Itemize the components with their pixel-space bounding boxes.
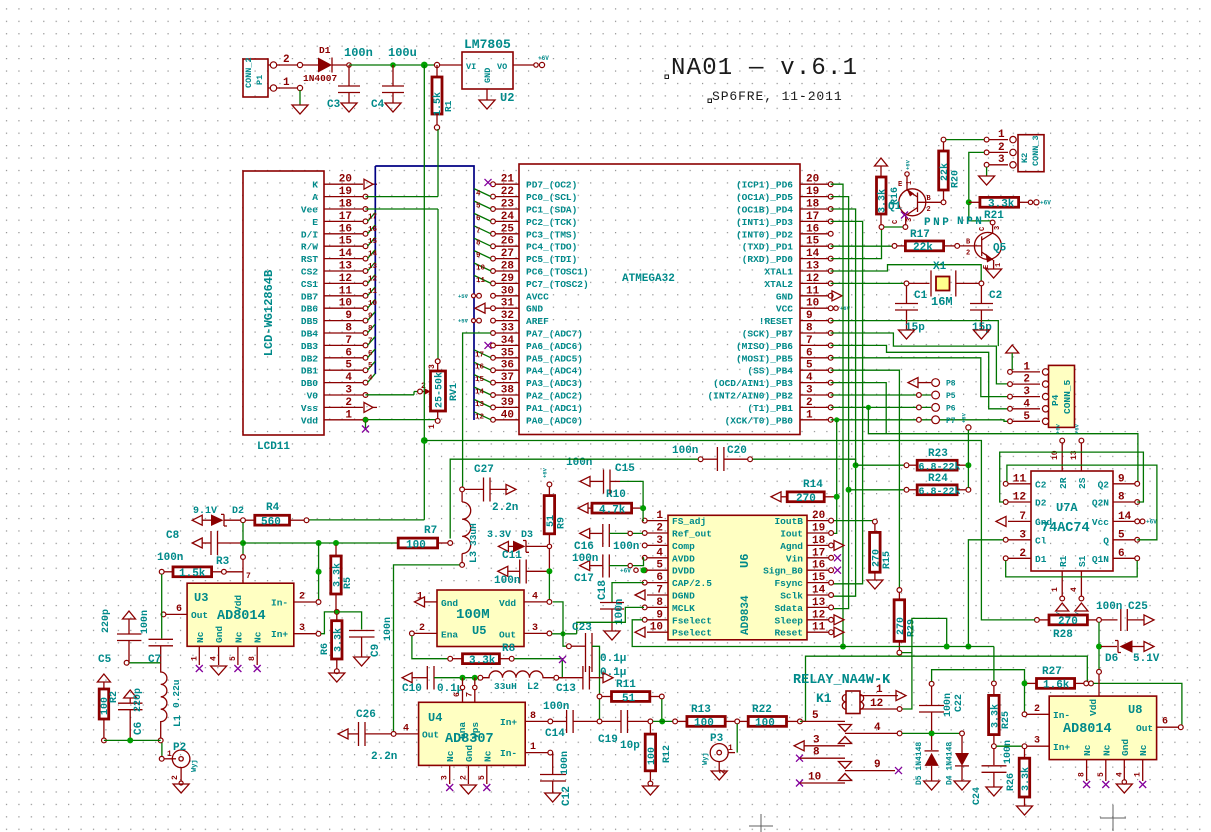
svg-text:R24: R24: [928, 473, 948, 485]
ATMEGA pin 21 PD7_(OC2): [494, 183, 519, 185]
svg-text:2: 2: [419, 623, 425, 634]
svg-text:Out: Out: [191, 610, 208, 621]
junction +9V rail: [421, 62, 428, 69]
svg-text:AREF: AREF: [526, 316, 549, 327]
svg-text:5: 5: [345, 360, 352, 372]
crystal X1 16M: [904, 281, 909, 286]
svg-text:11: 11: [339, 285, 353, 297]
bus entry LCD pin 8: [368, 324, 376, 333]
svg-text:5: 5: [1097, 772, 1106, 777]
svg-text:D4 1N4148: D4 1N4148: [946, 742, 955, 785]
bus entry ATMEGA pin 22: [474, 189, 491, 197]
wire MCLK to U5 Out: [577, 607, 644, 633]
LCD pin 18 Vee: [324, 208, 363, 210]
resistor R13 100: [678, 720, 687, 722]
resistor R21 3.3k: [966, 199, 972, 205]
U8 bottom pins: [1086, 760, 1088, 781]
svg-text:In-: In-: [500, 748, 517, 759]
svg-text:8: 8: [476, 240, 481, 248]
no-connect X pin 34: [485, 342, 492, 349]
zener D6 5.1V: [1098, 622, 1100, 670]
svg-text:0.22u: 0.22u: [171, 679, 182, 708]
svg-text:100n: 100n: [140, 610, 151, 634]
wire Fselect to R25 rail: [632, 620, 994, 647]
wire PA7 pin33 to L3 top: [463, 333, 491, 488]
svg-text:4: 4: [806, 372, 813, 384]
regulator U2 LM7805: [462, 52, 513, 89]
svg-text:8: 8: [1078, 772, 1087, 777]
svg-text:12: 12: [339, 273, 352, 285]
U4 In- pin 1: [525, 752, 548, 754]
svg-text:Vdd: Vdd: [1088, 699, 1099, 716]
test point P5: [932, 391, 940, 399]
resistor R24 6.8-22k: [846, 487, 852, 493]
svg-text:10: 10: [806, 298, 819, 310]
BNC P3: [710, 744, 728, 762]
svg-text:11: 11: [812, 622, 826, 634]
svg-text:3.3V: 3.3V: [487, 530, 511, 541]
svg-text:6: 6: [176, 604, 182, 615]
svg-text:1N4007: 1N4007: [303, 73, 338, 84]
capacitor C18 100n: [612, 583, 644, 603]
ATMEGA pin 7 (MISO)_PB6: [800, 344, 829, 346]
supply arrow R2: [97, 674, 110, 682]
U6 pin 5 DVDD: [647, 569, 668, 571]
svg-text:14: 14: [475, 389, 485, 397]
svg-text:Fselect: Fselect: [672, 615, 712, 626]
svg-text:K: K: [312, 180, 318, 191]
ATMEGA pin 39 PA1_(ADC1): [494, 406, 519, 408]
wire Q2N to D2 loop: [1000, 452, 1144, 502]
svg-text:(RXD)_PD0: (RXD)_PD0: [742, 254, 794, 265]
svg-text:Wyj: Wyj: [702, 752, 710, 765]
U5 pin2 Ena: [410, 631, 415, 636]
svg-text:R5: R5: [343, 577, 354, 589]
svg-text:2: 2: [656, 523, 663, 535]
ground P1: [292, 105, 308, 114]
svg-text:1: 1: [998, 129, 1005, 141]
no-connect X below LCD Vdd: [362, 426, 369, 433]
svg-text:+6V: +6V: [1055, 423, 1062, 434]
svg-text:PA5_(ADC5): PA5_(ADC5): [526, 353, 583, 364]
capacitor C24 100n: [993, 749, 995, 765]
bus entry LCD pin 16: [368, 225, 376, 234]
RV1 wiper pin 2: [418, 389, 423, 394]
svg-text:3.3k: 3.3k: [332, 563, 344, 587]
svg-text:22: 22: [501, 186, 514, 198]
svg-text:220p: 220p: [133, 688, 144, 712]
svg-text:!RESET: !RESET: [759, 316, 794, 327]
U4 bottom pins: [449, 765, 451, 784]
bus entry LCD pin 7: [368, 336, 376, 345]
wire PD5 pin19 to U6 Sclk: [831, 197, 849, 609]
wire P1.1 to ground: [279, 87, 300, 89]
svg-text:PC7_(TOSC2): PC7_(TOSC2): [526, 279, 589, 290]
svg-text:P4: P4: [1050, 394, 1061, 406]
svg-text:7: 7: [806, 335, 813, 347]
U3 bottom pins: [198, 646, 200, 665]
svg-text:AD8014: AD8014: [217, 609, 266, 624]
svg-text:3: 3: [656, 535, 663, 547]
bus entry ATMEGA pin 38: [474, 387, 491, 395]
U6 pin 1 FS_adj: [647, 520, 668, 522]
svg-text:PA6_(ADC6): PA6_(ADC6): [526, 341, 583, 352]
wire PB1 pin2 to P6: [831, 406, 931, 408]
svg-text:2: 2: [345, 397, 352, 409]
svg-text:100u: 100u: [388, 46, 417, 60]
wire R10 node to FS_adj: [642, 510, 645, 521]
svg-text:In+: In+: [500, 717, 517, 728]
P4 pin 3: [1012, 396, 1040, 398]
bus entry LCD pin 9: [368, 312, 376, 321]
svg-text:+6V: +6V: [1040, 200, 1051, 207]
bus entry ATMEGA pin 24: [474, 213, 491, 221]
bus entry LCD pin 6: [368, 349, 376, 358]
wire R2/C6/L1 node: [104, 739, 161, 741]
svg-text:1: 1: [345, 409, 352, 421]
svg-text:100n: 100n: [943, 693, 954, 717]
wire R16 to Q1 collector: [884, 226, 903, 228]
+9V rail from D1 node down: [423, 65, 425, 520]
K1 contact pin 10: [796, 780, 803, 787]
svg-text:DB0: DB0: [301, 378, 318, 389]
svg-text:R2: R2: [109, 691, 120, 703]
U7A pin 5 Q: [1113, 539, 1135, 541]
wire R27 node to U8 In-: [1024, 686, 1026, 712]
svg-text:XTAL1: XTAL1: [764, 267, 793, 278]
svg-text:5: 5: [229, 656, 238, 661]
svg-text:DB2: DB2: [301, 353, 318, 364]
wire LCD Vdd to RV1 pin1: [366, 419, 438, 421]
svg-text:R8: R8: [502, 643, 516, 655]
diode D5 1N4148: [931, 736, 933, 750]
svg-text:A: A: [312, 192, 318, 203]
capacitor C9 100n: [339, 612, 361, 630]
svg-text:C5: C5: [98, 654, 112, 666]
svg-text:C27: C27: [474, 464, 494, 476]
svg-text:(INT0)_PD2: (INT0)_PD2: [736, 229, 793, 240]
svg-text:10: 10: [808, 772, 821, 784]
LCD pin 11 DB7: [324, 295, 363, 297]
U2 GND pin: [486, 89, 488, 100]
ATMEGA pin 11 GND: [800, 295, 829, 297]
U6 pin 15 Fsync: [807, 582, 829, 584]
svg-text:16: 16: [368, 226, 378, 234]
svg-text:14: 14: [806, 248, 820, 260]
svg-text:U3: U3: [194, 591, 208, 605]
svg-text:Iout: Iout: [780, 529, 803, 540]
U7A pin 13 2S: [1080, 443, 1082, 471]
svg-text:1: 1: [1051, 587, 1060, 592]
LCD pin 14 RST: [324, 258, 363, 260]
bus entry ATMEGA pin 25: [474, 226, 491, 234]
U7A pin 1 R1: [1061, 571, 1063, 596]
svg-text:16: 16: [475, 364, 485, 372]
transistor Q5 NPN: [990, 220, 995, 225]
svg-text:C11: C11: [502, 550, 522, 562]
ATMEGA pin 22 PC0_(SCL): [494, 196, 519, 198]
resistor R2 100: [99, 689, 109, 719]
svg-text:270: 270: [1058, 616, 1078, 628]
svg-text:CONN_5: CONN_5: [1062, 379, 1073, 414]
svg-text:100n: 100n: [560, 751, 571, 775]
svg-text:100: 100: [694, 718, 714, 730]
resistor R22 100: [740, 720, 749, 722]
svg-text:C17: C17: [574, 573, 594, 585]
capacitor C11 100n: [498, 566, 508, 576]
ATMEGA pin 32 AREF: [494, 320, 519, 322]
svg-text:R15: R15: [882, 551, 893, 569]
svg-text:13: 13: [475, 401, 485, 409]
wire R14 column to IoutB: [831, 420, 837, 534]
LCD pin 7 DB3: [324, 344, 363, 346]
capacitor C13 0.1u: [559, 677, 583, 679]
svg-text:220p: 220p: [101, 609, 112, 633]
inductor L2 33uH: [478, 675, 483, 680]
svg-text:U2: U2: [500, 91, 514, 105]
svg-text:R6: R6: [320, 643, 331, 655]
capacitor C6 220p: [118, 702, 143, 704]
svg-text:RST: RST: [301, 254, 318, 265]
LCD pin 9 DB5: [324, 320, 363, 322]
svg-text:IoutB: IoutB: [774, 516, 803, 527]
svg-text:6: 6: [656, 572, 663, 584]
resistor R23 6.8-22k: [853, 462, 859, 468]
ground Q5 emitter: [986, 269, 1002, 278]
svg-text:0.1µ: 0.1µ: [600, 653, 626, 665]
svg-text:2: 2: [806, 397, 813, 409]
wire Q to C2 loop: [1007, 465, 1157, 540]
ATMEGA pin 27 PC5_(TDI): [494, 258, 519, 260]
svg-text:8: 8: [368, 325, 373, 333]
+9V rail to R4: [308, 519, 424, 521]
U6 pin 8 MCLK: [647, 606, 668, 608]
svg-text:9: 9: [806, 310, 813, 322]
svg-text:13: 13: [806, 261, 820, 273]
svg-text:C13: C13: [556, 683, 576, 695]
svg-text:VI: VI: [466, 62, 476, 72]
U4 Ena/Vps top stubs: [462, 678, 464, 703]
svg-text:32: 32: [501, 310, 514, 322]
svg-text:270: 270: [796, 493, 816, 505]
svg-text:DVDD: DVDD: [672, 566, 695, 577]
svg-text:2S: 2S: [1077, 477, 1088, 489]
svg-text:1: 1: [728, 744, 733, 753]
wire MOSI pin6 to P4 pin3: [831, 358, 1008, 397]
svg-text:4: 4: [874, 722, 881, 734]
ATMEGA pin 34 PA6_(ADC6): [494, 344, 519, 346]
svg-text:17: 17: [339, 211, 352, 223]
svg-text:8: 8: [345, 323, 352, 335]
svg-text:+6V: +6V: [961, 412, 968, 423]
wire R22 node up to U8 input: [800, 656, 1087, 721]
svg-text:R12: R12: [662, 745, 673, 763]
svg-text:LCD-WG12864B: LCD-WG12864B: [262, 270, 276, 356]
wire RESET pin9 to U6 Reset: [831, 321, 999, 347]
svg-text:CS1: CS1: [301, 279, 318, 290]
ATMEGA pin 20 (ICP1)_PD6: [800, 183, 829, 185]
svg-text:PA4_(ADC4): PA4_(ADC4): [526, 366, 583, 377]
svg-text:(OCD/AIN1)_PB3: (OCD/AIN1)_PB3: [713, 378, 793, 389]
svg-text:U5: U5: [472, 624, 486, 638]
wire PB1 node to U7A Q2 long run: [868, 407, 1138, 482]
wire PD6 pin20 to U6 Fsync: [831, 184, 843, 646]
svg-text:Out: Out: [499, 630, 516, 641]
U7A pin 6 Q1N: [1113, 557, 1135, 559]
svg-text:560: 560: [261, 517, 281, 529]
svg-text:E: E: [312, 217, 318, 228]
svg-text:C: C: [892, 220, 900, 224]
svg-text:C12: C12: [561, 786, 573, 806]
supply arrow U7A pin1: [1056, 603, 1069, 611]
LCD pin 1 Vdd: [324, 419, 363, 421]
svg-text:1: 1: [530, 742, 536, 753]
svg-text:E: E: [898, 181, 902, 189]
svg-text:Q5: Q5: [993, 243, 1007, 255]
svg-text:10: 10: [368, 300, 378, 308]
connector K2 CONN_3: [1018, 135, 1044, 172]
U7A pin 14 Vcc: [1113, 520, 1135, 522]
svg-text:C18: C18: [597, 580, 609, 600]
svg-text:6: 6: [476, 215, 481, 223]
svg-text:100n: 100n: [494, 575, 520, 587]
svg-text:3: 3: [428, 364, 437, 369]
capacitor C22 100n: [929, 681, 934, 686]
resistor R12 100: [649, 724, 651, 734]
svg-text:D1: D1: [1035, 554, 1047, 565]
svg-text:8: 8: [806, 323, 813, 335]
svg-text:Pselect: Pselect: [672, 628, 712, 639]
svg-text:R14: R14: [803, 479, 823, 491]
svg-text:10: 10: [339, 298, 352, 310]
bus entry LCD pin 15: [368, 237, 376, 246]
capacitor C10 0.1u: [402, 673, 412, 683]
svg-text:GND: GND: [483, 68, 493, 83]
svg-text:3: 3: [998, 154, 1005, 166]
svg-text:4.7k: 4.7k: [599, 504, 626, 516]
U6 pin 7 DGND: [647, 594, 668, 596]
resistor R8 3.3k: [453, 658, 463, 660]
U6 pin 16 Sign_B0: [807, 569, 829, 571]
svg-text:8: 8: [248, 656, 257, 661]
svg-text:C22: C22: [954, 694, 965, 712]
svg-text:CONN_2: CONN_2: [244, 57, 254, 88]
svg-text:16: 16: [806, 223, 819, 235]
wire MISO pin7 to P4 pin4: [831, 345, 1008, 408]
svg-text:Q1N: Q1N: [1092, 554, 1109, 565]
svg-text:3: 3: [441, 775, 450, 780]
svg-text:17: 17: [475, 351, 484, 359]
resistor R26 3.3k: [1024, 749, 1026, 759]
svg-text:6: 6: [368, 350, 373, 358]
svg-text:NA01 — v.6.1: NA01 — v.6.1: [671, 55, 858, 82]
ATMEGA pin 23 PC1_(SDA): [494, 208, 519, 210]
svg-text:Sign_B0: Sign_B0: [763, 566, 803, 577]
svg-text:C10: C10: [402, 683, 422, 695]
ATMEGA pin 13 XTAL1: [800, 270, 829, 272]
wire Q1N to D1 loop: [1006, 561, 1137, 577]
capacitor C26 2.2n: [338, 729, 348, 739]
svg-text:100n: 100n: [157, 552, 183, 564]
resistor R20 22k: [941, 137, 946, 142]
svg-text:K1: K1: [816, 691, 832, 706]
svg-text:3.3k: 3.3k: [332, 628, 344, 652]
svg-text:100n: 100n: [614, 599, 626, 625]
svg-text:100n: 100n: [344, 46, 373, 60]
svg-text:R20: R20: [951, 170, 962, 188]
svg-text:AD8014: AD8014: [1063, 722, 1112, 737]
svg-text:Out: Out: [1136, 723, 1153, 734]
svg-text:1: 1: [656, 510, 663, 522]
svg-text:R1: R1: [443, 100, 454, 112]
svg-text:3.3k: 3.3k: [1020, 767, 1032, 791]
svg-text:LM7805: LM7805: [464, 37, 511, 52]
capacitor C4 100u: [392, 65, 394, 86]
svg-text:16: 16: [812, 560, 825, 572]
svg-text:AD9834: AD9834: [740, 595, 752, 635]
svg-text:Wyj: Wyj: [191, 759, 199, 772]
U7A Vcc supply stub: [1140, 519, 1145, 524]
sheet crosshair: [1100, 805, 1126, 831]
bus entry ATMEGA pin 36: [474, 362, 491, 370]
arrow U6 Reset: [834, 627, 844, 637]
svg-text:D5 1N4148: D5 1N4148: [915, 742, 924, 785]
ATMEGA pin 24 PC2_(TCK): [494, 220, 519, 222]
U6 pin 14 Sclk: [807, 594, 829, 596]
svg-text:C15: C15: [615, 463, 635, 475]
resistor R5 3.3k: [335, 545, 337, 556]
svg-text:8: 8: [530, 711, 536, 722]
capacitor C27 2.2n: [465, 488, 484, 490]
connector P4 CONN_5: [1049, 365, 1075, 427]
svg-text:PC0_(SCL): PC0_(SCL): [526, 192, 577, 203]
svg-text:R4: R4: [266, 502, 280, 514]
svg-text:VO: VO: [497, 62, 507, 72]
svg-text:Comp: Comp: [672, 541, 695, 552]
capacitor C23 0.1u: [571, 645, 585, 647]
svg-text:3: 3: [299, 623, 305, 634]
svg-text:C8: C8: [166, 530, 180, 542]
svg-text:1: 1: [906, 181, 914, 185]
wire LCD A to R1: [366, 196, 439, 198]
ATMEGA pin 10 VCC: [800, 307, 829, 309]
svg-text:7: 7: [1019, 511, 1026, 523]
resistor R29 270: [897, 588, 902, 593]
+9V rail to R28 column: [424, 441, 1035, 620]
svg-text:100M: 100M: [456, 607, 490, 623]
svg-text:29: 29: [501, 273, 514, 285]
U7A pin 3 Cl: [1008, 539, 1031, 541]
wire U3 In+ to divider: [321, 612, 334, 634]
svg-text:12: 12: [870, 698, 883, 710]
wire LCD Vee to RV1 pin3: [366, 208, 439, 210]
svg-text:1.5k: 1.5k: [179, 568, 206, 580]
wire PB3 pin4: [831, 383, 887, 434]
svg-text:+6V: +6V: [620, 568, 631, 575]
svg-text:Gnd: Gnd: [214, 626, 225, 643]
svg-text:1: 1: [806, 409, 813, 421]
svg-text:LCD11: LCD11: [257, 441, 290, 453]
capacitor C19 10p: [602, 720, 621, 722]
svg-text:1: 1: [1134, 772, 1143, 777]
svg-text:39: 39: [501, 397, 514, 409]
capacitor C16 100n: [580, 528, 590, 538]
svg-text:33uH: 33uH: [494, 681, 517, 692]
svg-text:35: 35: [501, 347, 515, 359]
svg-text:PA7_(ADC7): PA7_(ADC7): [526, 329, 583, 340]
svg-text:270: 270: [896, 617, 907, 635]
svg-text:Nc: Nc: [233, 631, 244, 643]
